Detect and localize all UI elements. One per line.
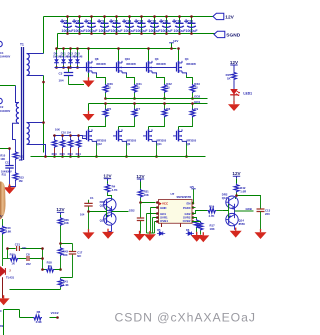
svg-text:560: 560 [63,253,68,257]
svg-text:C11: C11 [5,161,10,165]
diode D11 1N4148W [60,47,69,69]
capacitor C21 NC [8,242,43,251]
junction [115,15,118,35]
svg-text:GDB: GDB [246,207,252,211]
ground [83,229,95,239]
svg-text:R7: R7 [136,107,140,111]
resistor R43 560 [58,244,68,270]
diode D15 1N4148W [74,47,83,69]
wire [44,17,216,54]
resistor R15 1K [226,71,237,89]
winding primary [13,86,20,140]
svg-text:GD1: GD1 [194,100,201,104]
svg-text:IRF3205: IRF3205 [156,63,166,66]
diode D6 [181,223,195,235]
svg-text:Q6: Q6 [187,142,191,146]
svg-text:U7: U7 [171,192,175,196]
transistor Q10 IRF3205 [113,47,136,84]
capacitor C19 1000uF [172,17,186,34]
svg-text:GD2: GD2 [129,208,135,212]
svg-text:C21: C21 [15,242,21,246]
resistor R8 [149,102,171,126]
wire emitter out [112,211,129,213]
wire base node [89,207,107,217]
wire emitter out [235,210,254,212]
resistor R42 1.0R [234,184,246,194]
capacitor C14 1000uF [122,17,136,34]
capacitor C16 1000uF [147,17,161,34]
junction [90,15,93,35]
resistor R18 1K [46,260,55,272]
svg-text:12V: 12V [173,39,178,43]
resistor R22 [162,82,172,100]
power 12V [56,207,65,217]
svg-text:VCC2: VCC2 [51,311,59,315]
wire [8,249,43,270]
winding secondary 2 [27,123,46,157]
svg-text:Q3: Q3 [155,57,159,61]
wire [2,219,4,226]
junction [66,15,69,35]
diode D5 [157,223,165,235]
svg-text:OVB1: OVB1 [160,219,168,223]
wire [108,193,112,200]
transistor Q11 IRF3205 [143,127,167,158]
svg-text:1M: 1M [19,179,24,183]
svg-text:NC: NC [22,246,26,250]
svg-text:12V: 12V [225,14,234,20]
svg-text:1000uF: 1000uF [186,29,199,33]
svg-text:OVB2: OVB2 [183,219,191,223]
svg-text:C18: C18 [162,19,168,23]
capacitor C15 1000uF [134,17,148,34]
junction [103,15,106,35]
svg-text:1N4148: 1N4148 [74,55,83,58]
svg-text:222: 222 [26,262,31,266]
ground [191,232,203,242]
svg-text:4.7K: 4.7K [209,214,215,218]
transistor Q9 IRF3205 [113,127,137,158]
svg-text:1000uF: 1000uF [161,29,174,33]
svg-text:R21: R21 [136,82,142,86]
resistor R24 4.7K [207,205,222,218]
transistor Q12 IRF3205 [83,127,107,158]
svg-text:1000uF: 1000uF [74,29,87,33]
transistor Q14 8550 [226,211,245,230]
svg-text:C15: C15 [137,19,143,23]
svg-text:NC: NC [77,254,81,258]
svg-text:1000uF: 1000uF [111,29,124,33]
svg-text:Q11: Q11 [157,142,163,146]
svg-text:SGND: SGND [226,32,240,38]
svg-text:R20: R20 [107,82,113,86]
resistor R4 4.7K [105,184,117,193]
ground [0,295,10,305]
wire AC input [0,85,16,87]
power 12V tap [169,39,178,50]
svg-text:Q4: Q4 [185,57,189,61]
svg-text:1000uF: 1000uF [99,29,112,33]
resistor R41 4.4K [58,268,69,289]
wire [61,226,73,278]
svg-text:TL431: TL431 [6,275,15,279]
ground [255,229,267,239]
capacitor C13 220 [257,208,271,231]
svg-text:C3: C3 [59,72,63,76]
resistor R19 1K [3,253,18,266]
svg-text:10K: 10K [55,128,60,132]
svg-text:Q13: Q13 [222,196,228,200]
transistor Q4 IRF3205 [173,47,196,84]
wire [15,160,17,172]
svg-text:4.4K: 4.4K [63,283,69,287]
capacitor C1 [80,196,94,232]
svg-text:10K: 10K [64,221,69,225]
svg-text:T1: T1 [20,43,24,47]
svg-text:PAD0: PAD0 [183,206,191,210]
svg-text:R5: R5 [107,107,111,111]
transistor Q8 IRF3205 [83,47,106,84]
svg-text:Q8: Q8 [95,57,99,61]
diode D13 1N4148W [67,47,76,69]
wire IC left pins [147,208,159,234]
svg-text:1M: 1M [19,158,24,162]
ground [83,104,95,121]
wire OD2 to R24 [192,211,207,214]
wire [10,289,61,291]
svg-text:C16: C16 [150,19,156,23]
svg-text:Q16: Q16 [100,218,106,222]
svg-text:C1: C1 [90,196,94,200]
svg-text:104: 104 [59,79,64,83]
capacitor C7 [137,203,144,234]
finger blob [0,0,1,1]
svg-text:C2: C2 [0,105,4,109]
svg-text:C: C [0,309,2,313]
svg-text:4.7K: 4.7K [112,188,118,192]
transformer T1 [20,43,24,160]
ground [197,232,209,242]
svg-text:C20: C20 [187,19,193,23]
svg-text:R23: R23 [194,82,200,86]
svg-text:10K: 10K [0,157,5,161]
capacitor C5 1000uF [60,17,74,34]
capacitor C8 222 [6,247,44,266]
capacitor C4 (edge) [0,41,11,58]
capacitor C18 1000uF [159,17,173,34]
transistor Q6 IRF3205 [173,127,197,158]
svg-text:8550: 8550 [239,222,246,226]
TL431 U2 [0,266,15,299]
junction [128,15,131,35]
ground [228,101,240,111]
svg-text:VCC: VCC [162,202,169,206]
svg-text:R11: R11 [2,174,7,177]
resistor R29 [52,134,58,158]
ground [134,231,146,241]
capacitor C20 1000uF [184,17,198,34]
capacitor C2 (edge) [0,98,11,113]
resistor R13 1M [10,172,25,187]
svg-text:SM72295TR: SM72295TR [177,195,192,199]
power 12V [136,174,145,189]
svg-text:R24: R24 [209,205,215,209]
resistor R20 [103,82,113,100]
svg-text:R2: R2 [0,324,4,328]
ground [83,73,95,87]
svg-text:C10 104: C10 104 [61,130,72,134]
capacitor C11 104/630V [0,147,14,188]
svg-text:104/400V: 104/400V [0,110,11,113]
capacitor C17 NC [69,251,83,258]
wire VCC [141,198,156,203]
svg-text:IRF3205: IRF3205 [186,63,196,66]
svg-text:C5: C5 [63,19,67,23]
svg-text:1000uF: 1000uF [149,29,162,33]
resistor R12 1M [13,140,24,162]
svg-text:Q15: Q15 [100,204,106,208]
svg-text:GD2: GD2 [194,95,201,99]
wire gate bus row1 [55,67,177,69]
wire [43,269,61,271]
capacitor C7 1000uF [84,17,98,34]
svg-text:104/400V: 104/400V [0,55,11,58]
wire bus GD1 [89,103,208,105]
svg-text:Q10: Q10 [125,57,131,61]
svg-text:1000uF: 1000uF [62,29,75,33]
svg-text:R34: R34 [76,152,82,156]
svg-text:1.0R: 1.0R [240,189,246,193]
junction [78,15,81,35]
svg-text:R29: R29 [52,152,58,156]
svg-text:Q9: Q9 [127,142,131,146]
junction pins [156,201,159,204]
svg-text:CSDN @cXhAXAEOaJ: CSDN @cXhAXAEOaJ [115,311,256,325]
svg-text:C9: C9 [100,19,104,23]
transistor Q15 [100,198,116,212]
resistor R21 [132,82,142,100]
junction [178,15,181,35]
transistor Q13 [222,192,238,211]
ground [230,228,242,238]
junction [42,81,45,84]
wire PAD0 [192,207,196,209]
svg-text:C12: C12 [112,19,118,23]
svg-text:1K: 1K [48,264,52,268]
svg-text:R9: R9 [194,107,198,111]
capacitor C12 1000uF [109,17,123,34]
svg-text:C19: C19 [175,19,181,23]
transistor Q3 IRF3205 [143,47,166,84]
svg-text:EN: EN [186,202,190,206]
svg-text:R8: R8 [166,107,170,111]
wire EN [190,185,196,203]
svg-text:1000uF: 1000uF [124,29,137,33]
svg-text:R6: R6 [37,310,41,314]
resistor R40 4.6K [0,226,11,267]
svg-text:R22: R22 [166,82,172,86]
svg-text:V: V [0,214,3,219]
wire [236,193,261,209]
resistor R7 [119,102,141,126]
svg-text:1000uF: 1000uF [174,29,187,33]
svg-text:D6: D6 [186,228,190,232]
svg-text:C14: C14 [125,19,131,23]
power 12V [103,173,112,183]
op-amp U7 SM72295TR [159,192,193,223]
node VCC2 [51,311,59,319]
capacitor C9 1000uF [97,17,111,34]
wire rail A [58,48,177,50]
resistor R33 [68,134,74,158]
svg-text:LED1: LED1 [243,91,252,95]
svg-text:220: 220 [265,212,270,216]
resistor R6 4.3K [33,310,43,324]
svg-text:C7: C7 [87,19,91,23]
junction [153,15,156,35]
power 12V [230,60,239,72]
svg-text:12V: 12V [190,185,195,189]
capacitor C6 1000uF [72,17,86,34]
svg-text:C6: C6 [75,19,79,23]
svg-text:10K: 10K [144,193,149,197]
svg-text:1000uF: 1000uF [86,29,99,33]
svg-text:R30: R30 [60,152,66,156]
junction [42,121,45,124]
svg-text:1000uF: 1000uF [136,29,149,33]
wire bus GD2 [106,98,208,100]
resistor R17 10K [192,222,215,235]
diode D9 1N4148W [53,47,62,69]
svg-text:IRF3205: IRF3205 [126,63,136,66]
wire source rail [31,156,206,158]
transistor Q16 [100,212,116,232]
svg-text:R19: R19 [10,253,16,257]
svg-text:1K: 1K [11,261,15,265]
wire [43,76,45,153]
resistor R5 [89,102,112,126]
resistor R34 [76,134,82,158]
port SGND [214,31,241,38]
svg-text:R33: R33 [68,152,74,156]
junction [140,15,143,35]
winding secondary 1 [27,54,44,76]
svg-text:10K: 10K [210,227,215,231]
svg-text:GND: GND [160,206,166,210]
svg-text:4.6K: 4.6K [5,230,11,234]
svg-text:C8: C8 [26,253,30,257]
wire VCC2 [4,310,58,335]
wire row2 gate bus [53,136,87,139]
ground [144,231,156,241]
resistor R23 [190,82,200,100]
svg-text:D5: D5 [157,228,161,232]
power 12V [232,171,241,184]
svg-text:IRF3205: IRF3205 [96,63,106,66]
port 12V [213,13,235,20]
ground [4,184,16,194]
capacitor C3 104 [59,66,85,84]
resistor R9 [179,102,199,126]
LED LED1 [230,89,252,103]
resistor R16 [192,218,199,235]
ground [102,229,114,239]
svg-text:Q12: Q12 [97,142,103,146]
wire bases [222,204,228,217]
svg-text:104: 104 [80,212,85,216]
resistor R30 [60,134,66,158]
resistor R26 10K [58,217,69,226]
svg-text:4.3K: 4.3K [36,320,43,324]
junction [190,15,193,35]
resistor R31 10K [138,189,149,198]
svg-text:C4: C4 [0,51,4,55]
junction [165,15,168,35]
svg-text:1K: 1K [227,77,231,81]
